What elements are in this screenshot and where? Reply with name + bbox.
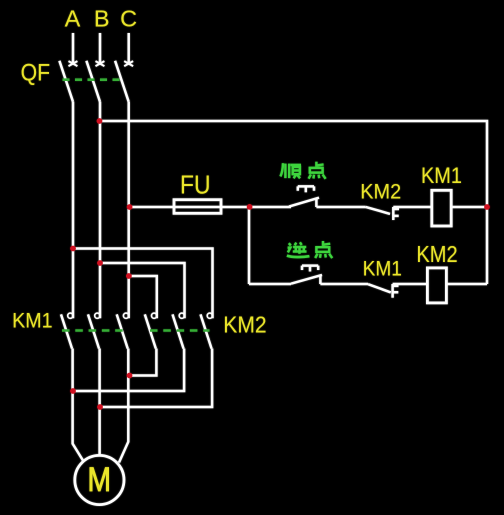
svg-text:B: B <box>94 6 110 32</box>
svg-text:KM1: KM1 <box>363 256 402 280</box>
svg-text:KM2: KM2 <box>416 241 457 267</box>
svg-text:KM1: KM1 <box>421 163 462 188</box>
svg-text:QF: QF <box>21 60 50 87</box>
svg-text:KM2: KM2 <box>360 180 401 203</box>
svg-text:A: A <box>65 6 81 32</box>
svg-text:C: C <box>120 6 137 32</box>
svg-text:M: M <box>87 461 111 499</box>
svg-text:KM2: KM2 <box>223 311 266 337</box>
svg-text:KM1: KM1 <box>12 308 53 332</box>
svg-text:FU: FU <box>180 171 211 199</box>
